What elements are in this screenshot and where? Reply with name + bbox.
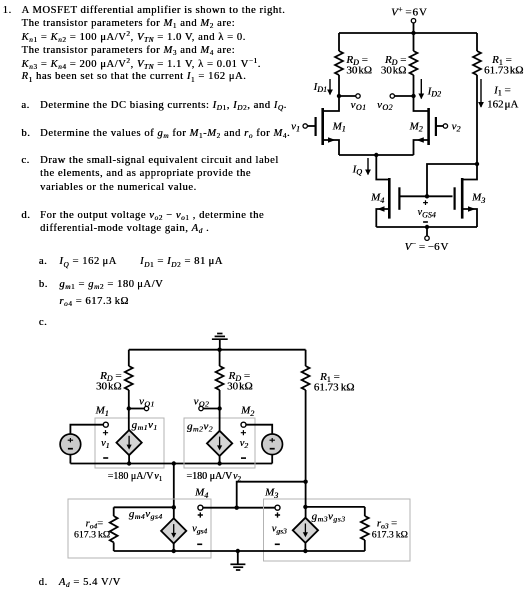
svg-text:30 kΩ: 30 kΩ xyxy=(381,64,407,76)
svg-text:M2: M2 xyxy=(409,121,423,134)
wire gate connect M4-M3 xyxy=(401,195,453,197)
label V- supply value xyxy=(405,239,449,253)
source v2 xyxy=(262,434,283,455)
node common source rail xyxy=(172,461,176,465)
box M4 equivalent xyxy=(68,499,211,558)
transistor M1 xyxy=(307,96,339,155)
current arrow I1 xyxy=(480,79,482,107)
svg-text:61.73 kΩ: 61.73 kΩ xyxy=(484,64,523,76)
node R1/gate junction xyxy=(303,480,307,484)
terminal M1 gate xyxy=(103,422,108,427)
wire RD2 bottom lead xyxy=(219,390,221,409)
label RD1 value xyxy=(345,54,372,76)
svg-text:M1: M1 xyxy=(332,121,346,134)
wire common source rail xyxy=(339,154,414,156)
label IQ xyxy=(352,164,363,177)
label gm2v2 xyxy=(187,421,213,434)
svg-text:vgs3: vgs3 xyxy=(272,523,287,535)
svg-text:M1: M1 xyxy=(95,405,109,418)
label RD1 value xyxy=(96,370,122,393)
svg-text:gm4vgs4: gm4vgs4 xyxy=(129,508,163,521)
label vO2 xyxy=(377,99,393,112)
box M3 equivalent xyxy=(264,499,411,561)
svg-text:M3: M3 xyxy=(471,192,485,205)
node bus center junction xyxy=(217,348,221,352)
svg-text:30 kΩ: 30 kΩ xyxy=(227,380,253,392)
svg-text:30 kΩ: 30 kΩ xyxy=(96,380,122,392)
transistor M3 xyxy=(455,164,477,227)
wire common source node down to M4 xyxy=(173,464,175,508)
label v1 polarity xyxy=(103,430,108,458)
wire v2 source to rail xyxy=(271,455,273,464)
label M2 xyxy=(240,405,254,418)
svg-text:162 μA: 162 μA xyxy=(487,98,518,110)
svg-text:30 kΩ: 30 kΩ xyxy=(346,64,372,76)
current arrow ID1 xyxy=(329,79,331,95)
resistor RD2 xyxy=(410,51,418,75)
label I1 value xyxy=(487,84,518,110)
terminal V+ xyxy=(411,19,415,23)
svg-text:vgs4: vgs4 xyxy=(192,523,207,535)
transistor M4 xyxy=(376,178,399,227)
terminal M3 gate xyxy=(275,505,280,510)
wire gm3vgs3 to rail xyxy=(304,543,306,551)
label M1 xyxy=(95,405,109,418)
resistor ro4 xyxy=(110,507,118,551)
resistor R1 xyxy=(473,51,481,75)
label vO1 xyxy=(351,99,367,112)
wire bottom rail M1-M2 xyxy=(70,463,272,465)
node M3 drain junction xyxy=(475,162,479,166)
wire RD1 bottom lead xyxy=(338,75,340,96)
wire bottom rail xyxy=(376,226,477,228)
terminal v1 xyxy=(303,124,307,128)
wire RD1 top lead xyxy=(338,33,340,51)
node gm2v2/rail xyxy=(217,461,221,465)
label M1 xyxy=(332,121,346,134)
node gm1v1/rail xyxy=(127,461,131,465)
node vO2 xyxy=(217,406,221,410)
svg-text:v1: v1 xyxy=(101,438,109,450)
label vO2 xyxy=(194,395,210,408)
wire vO2 terminal to M2 drain xyxy=(395,95,414,97)
svg-text:gm3vgs3: gm3vgs3 xyxy=(312,510,346,523)
svg-text:ro4=: ro4= xyxy=(85,518,103,530)
svg-text:=180 μA/V v2: =180 μA/V v2 xyxy=(186,471,241,483)
wire V+ to bus xyxy=(413,23,415,33)
box M2 equivalent xyxy=(184,418,255,468)
ground (top) xyxy=(212,334,228,350)
label V+ supply value xyxy=(391,4,427,18)
label gm4vgs4 xyxy=(129,508,163,521)
terminal v2 xyxy=(443,124,447,128)
wire to V- terminal xyxy=(426,227,428,236)
svg-text:617.3 kΩ: 617.3 kΩ xyxy=(372,530,408,541)
node gate connect junction xyxy=(425,194,429,198)
terminal V- xyxy=(425,236,429,240)
node V- junction xyxy=(425,225,429,229)
current arrow IQ xyxy=(367,158,369,175)
ground (bottom) xyxy=(230,551,245,570)
wire R1 to M3 drain node xyxy=(476,75,478,164)
wire to vO1 terminal xyxy=(339,95,356,97)
wire gm2v2 to rail xyxy=(219,456,221,464)
label M3 xyxy=(264,487,278,500)
svg-text:vO2: vO2 xyxy=(377,99,393,112)
node gm4/rail xyxy=(172,549,176,553)
wire RD2 top lead xyxy=(219,350,221,366)
svg-text:ID2: ID2 xyxy=(427,86,441,99)
dependent source gm3vgs3 xyxy=(293,518,318,543)
label gm2 value xyxy=(186,471,241,483)
wire top bus xyxy=(339,32,477,34)
terminal vO1 xyxy=(356,94,360,98)
label M3 xyxy=(471,192,485,205)
label vGS4 xyxy=(423,200,428,222)
label R1 value xyxy=(314,371,355,394)
label ro4 value xyxy=(74,518,110,540)
label ID1 xyxy=(313,81,327,94)
svg-text:v2: v2 xyxy=(240,438,249,450)
wire M3 top rail xyxy=(305,506,364,508)
label R1 value xyxy=(484,54,523,76)
wire gm1v1 to rail xyxy=(128,455,130,463)
label M4 xyxy=(370,192,384,205)
terminal M4 gate xyxy=(198,505,203,510)
label M4 xyxy=(194,487,208,500)
node gate tie xyxy=(235,506,239,510)
svg-text:617.3 kΩ: 617.3 kΩ xyxy=(74,530,110,541)
label RD2 value xyxy=(381,54,407,76)
wire R1 top lead xyxy=(305,350,307,366)
svg-text:ro3 =: ro3 = xyxy=(377,518,397,530)
source v1 xyxy=(60,434,81,455)
node M4 top junction xyxy=(172,505,176,509)
svg-text:I1 =: I1 = xyxy=(493,84,511,97)
resistor RD2 (small-signal) xyxy=(216,366,224,390)
transistor M2 xyxy=(414,96,444,155)
wire RD2 top lead xyxy=(413,33,415,51)
svg-text:v2: v2 xyxy=(452,120,461,133)
terminal vO1 xyxy=(144,406,148,410)
resistor ro3 xyxy=(361,507,369,551)
label ID2 xyxy=(427,86,441,99)
wire gate tie up to drain node xyxy=(237,482,306,508)
svg-text:vGS4: vGS4 xyxy=(418,207,436,220)
wire RD1 bottom lead xyxy=(128,390,130,409)
wire R1 to gate node xyxy=(305,390,307,482)
node common source junction xyxy=(374,153,378,157)
wire common source to M4 drain xyxy=(376,155,388,180)
wire M2 gate to v2 source xyxy=(246,425,272,434)
wire vO2 node to gm2v2 xyxy=(219,409,221,431)
wire drain node to gm3vgs3 xyxy=(305,482,307,518)
wire gate node to M3 drain node xyxy=(427,164,477,196)
svg-text:v1: v1 xyxy=(291,120,300,133)
terminal vO2 xyxy=(390,94,394,98)
resistor R1 (small-signal) xyxy=(302,366,310,390)
node vO2 drain junction xyxy=(411,94,415,98)
current arrow ID2 xyxy=(420,79,422,99)
svg-text:ID1: ID1 xyxy=(313,81,327,94)
svg-text:M4: M4 xyxy=(370,192,384,205)
wire v1 source to rail xyxy=(69,455,71,464)
svg-text:M2: M2 xyxy=(240,405,254,418)
label RD2 value xyxy=(227,370,253,393)
svg-text:V− = −6 V: V− = −6 V xyxy=(405,239,449,253)
svg-text:vO2: vO2 xyxy=(194,395,210,408)
svg-text:gm1v1: gm1v1 xyxy=(132,419,158,432)
label gm3vgs3 xyxy=(312,510,346,523)
node gm3/rail xyxy=(303,549,307,553)
label v2 polarity xyxy=(241,430,246,458)
wire vO2 terminal to node xyxy=(203,408,219,410)
dependent source gm1v1 xyxy=(116,430,141,455)
svg-text:vO1: vO1 xyxy=(139,395,155,408)
wire M4 gate to M3 gate xyxy=(203,507,275,509)
terminal M2 gate xyxy=(241,422,246,427)
resistor RD1 xyxy=(335,51,343,75)
BOTTOM CIRCUIT SVG xyxy=(55,328,420,578)
node vO1 xyxy=(127,406,131,410)
wire R1 top lead xyxy=(476,33,478,51)
svg-text:IQ: IQ xyxy=(352,164,363,177)
wire M1 gate to v1 source xyxy=(70,425,103,434)
label vO1 xyxy=(139,395,155,408)
box M1 equivalent xyxy=(95,418,164,468)
label gm1v1 xyxy=(132,419,158,432)
wire M4 top rail xyxy=(114,506,174,508)
label vgs4 polarity xyxy=(197,512,203,544)
svg-text:V+ = 6 V: V+ = 6 V xyxy=(391,4,427,18)
label v2 xyxy=(452,120,461,133)
wire to vO1 terminal xyxy=(129,408,145,410)
wire top bus xyxy=(129,349,306,351)
wire vO1 node to gm1v1 xyxy=(128,409,130,431)
resistor RD1 (small-signal) xyxy=(125,366,133,390)
dependent source gm2v2 xyxy=(207,431,232,456)
label M2 xyxy=(409,121,423,134)
wire gm4vgs4 leads xyxy=(173,507,175,551)
TOP-RIGHT CIRCUIT SVG xyxy=(288,5,524,255)
label ro3 value xyxy=(372,518,408,540)
wire RD2 bottom lead xyxy=(413,75,415,96)
svg-text:vO1: vO1 xyxy=(351,99,367,112)
label v1 xyxy=(291,120,300,133)
wire RD1 top lead xyxy=(128,350,130,366)
svg-text:M4: M4 xyxy=(194,487,208,500)
svg-text:=180 μA/V v1: =180 μA/V v1 xyxy=(108,471,163,483)
svg-text:gm2v2: gm2v2 xyxy=(187,421,213,434)
node bus/RD2 junction xyxy=(411,31,415,35)
terminal vO2 xyxy=(199,406,203,410)
node vO1 drain junction xyxy=(337,94,341,98)
node M3 top junction xyxy=(303,505,307,509)
svg-text:M3: M3 xyxy=(264,487,278,500)
problem statement text xyxy=(0,3,524,5)
dependent source gm4vgs4 xyxy=(161,518,186,543)
svg-text:61.73 kΩ: 61.73 kΩ xyxy=(314,381,355,393)
label vgs3 polarity xyxy=(275,512,280,544)
node ground/rail xyxy=(236,549,240,553)
label gm1 value xyxy=(108,471,163,483)
wire bottom rail xyxy=(114,550,365,552)
